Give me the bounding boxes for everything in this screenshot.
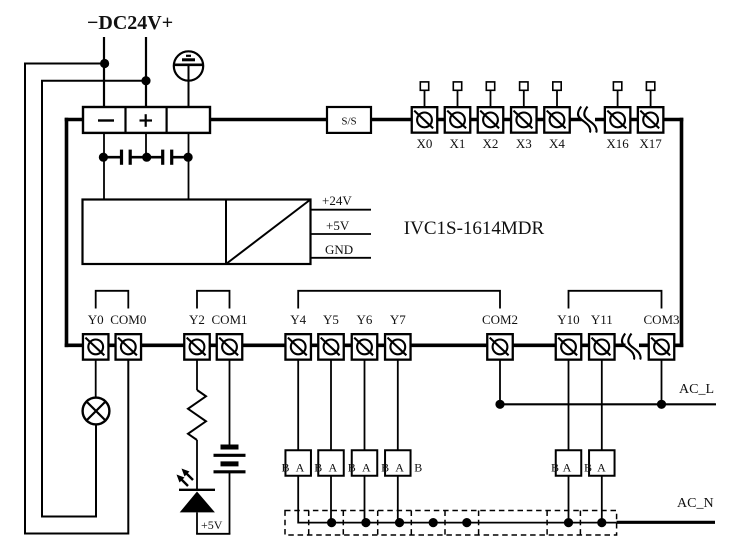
node ACN Y5 bbox=[327, 518, 336, 527]
terminal Y2 bbox=[184, 312, 210, 360]
terminal COM2 bbox=[482, 312, 518, 360]
battery GB1 bbox=[214, 447, 246, 472]
svg-text:A: A bbox=[362, 461, 371, 475]
protective earth PE bbox=[174, 51, 203, 107]
capacitor C1 bbox=[103, 150, 146, 165]
bracket Y2-COM1 bbox=[197, 291, 230, 309]
wire minus to PSU bbox=[103, 133, 105, 199]
wire LED-battery bottom bbox=[196, 533, 230, 535]
wire Y10 down bbox=[568, 360, 570, 451]
terminal COM1 bbox=[211, 312, 247, 360]
svg-text:Y11: Y11 bbox=[591, 312, 613, 327]
wire minus from DC24V bbox=[103, 37, 105, 107]
enclosure bus right bbox=[680, 118, 684, 347]
terminal Y5 bbox=[318, 312, 344, 360]
dashed bus outline bbox=[285, 511, 617, 536]
node ACN Y10 bbox=[564, 518, 573, 527]
wire GND bbox=[311, 257, 372, 259]
load K6 bbox=[348, 450, 377, 476]
wire Y6 down bbox=[364, 360, 366, 451]
svg-text:B: B bbox=[414, 461, 422, 475]
svg-text:B: B bbox=[584, 461, 592, 475]
load K11 bbox=[584, 450, 615, 476]
wire COM3 down bbox=[661, 360, 663, 405]
svg-text:A: A bbox=[597, 461, 606, 475]
terminal X16 bbox=[605, 82, 631, 151]
terminal Y10 bbox=[556, 312, 582, 360]
svg-text:X17: X17 bbox=[639, 136, 662, 151]
wire +24V bbox=[311, 209, 372, 211]
terminal Y7 bbox=[385, 312, 411, 360]
svg-text:−DC24V+: −DC24V+ bbox=[87, 12, 173, 34]
bracket Y4-COM2 bbox=[298, 291, 500, 309]
svg-text:GND: GND bbox=[325, 242, 353, 257]
wire resistor to LED bbox=[196, 440, 198, 490]
wire Y7 down bbox=[397, 360, 399, 451]
S/S box bbox=[327, 107, 371, 133]
break X bus bbox=[578, 107, 597, 133]
wire Y11 down bbox=[601, 360, 603, 451]
svg-text:Y6: Y6 bbox=[357, 312, 373, 327]
wire K11 to ACN bbox=[601, 476, 603, 523]
node ACN spare2 bbox=[462, 518, 471, 527]
wire LED to bottom bbox=[196, 512, 198, 533]
svg-text:X4: X4 bbox=[549, 136, 565, 151]
wire +5V bbox=[311, 233, 372, 235]
svg-text:A: A bbox=[296, 461, 305, 475]
capacitor C2 bbox=[147, 150, 188, 165]
lamp HL1 bbox=[83, 398, 110, 425]
svg-text:Y0: Y0 bbox=[88, 312, 104, 327]
wire K10 to ACN bbox=[568, 476, 570, 523]
wire Y2 to resistor bbox=[196, 360, 198, 391]
enclosure bus bottom bbox=[65, 343, 684, 347]
terminal block TB1 bbox=[83, 107, 210, 133]
wire K6 to ACN bbox=[364, 476, 366, 523]
svg-text:A: A bbox=[563, 461, 572, 475]
svg-text:IVC1S-1614MDR: IVC1S-1614MDR bbox=[404, 218, 545, 239]
node ACN Y7 bbox=[395, 518, 404, 527]
node ACN spare1 bbox=[429, 518, 438, 527]
svg-text:Y2: Y2 bbox=[189, 312, 205, 327]
terminal Y6 bbox=[352, 312, 378, 360]
svg-text:A: A bbox=[395, 461, 404, 475]
svg-text:Y5: Y5 bbox=[323, 312, 339, 327]
terminal X2 bbox=[478, 82, 504, 151]
terminal X1 bbox=[445, 82, 471, 151]
svg-text:COM0: COM0 bbox=[110, 312, 146, 327]
node COM3-ACL bbox=[657, 400, 666, 409]
load K5 bbox=[314, 450, 343, 476]
node ACN Y11 bbox=[597, 518, 606, 527]
wire earth to cap row bbox=[188, 133, 190, 199]
svg-text:X0: X0 bbox=[417, 136, 433, 151]
svg-text:S/S: S/S bbox=[341, 116, 356, 128]
terminal X17 bbox=[638, 82, 664, 151]
svg-text:Y10: Y10 bbox=[557, 312, 579, 327]
terminal X4 bbox=[544, 82, 570, 151]
wire Y0 to lamp bbox=[95, 360, 97, 399]
svg-text:X16: X16 bbox=[606, 136, 629, 151]
terminal Y11 bbox=[589, 312, 615, 360]
load K4 bbox=[281, 450, 310, 476]
svg-text:A: A bbox=[328, 461, 337, 475]
load K7 bbox=[381, 450, 410, 476]
svg-text:B: B bbox=[381, 461, 389, 475]
wire K4 to ACN bbox=[298, 476, 616, 523]
LED D1 bbox=[177, 469, 216, 513]
enclosure bus left bbox=[65, 118, 69, 347]
wire plus to cap row bbox=[145, 133, 147, 157]
wire COM2 down bbox=[499, 360, 501, 405]
terminal X3 bbox=[511, 82, 537, 151]
svg-text:B: B bbox=[314, 461, 322, 475]
wire K5 to ACN bbox=[330, 476, 332, 523]
wire AC_L bbox=[500, 403, 716, 405]
wire COM0 outer loop bbox=[25, 64, 128, 534]
wire COM1 to battery bbox=[229, 360, 231, 448]
terminal COM3 bbox=[643, 312, 679, 360]
wire Y5 down bbox=[330, 360, 332, 451]
power supply U2 bbox=[83, 200, 311, 265]
svg-text:COM1: COM1 bbox=[211, 312, 247, 327]
wire K7 to ACN bbox=[397, 476, 399, 523]
node COM2-ACL bbox=[495, 400, 504, 409]
wire Y0 inner loop bbox=[42, 81, 146, 517]
resistor R1 bbox=[188, 390, 206, 440]
node plus junction bbox=[141, 76, 150, 85]
svg-text:X1: X1 bbox=[450, 136, 466, 151]
svg-text:AC_L: AC_L bbox=[679, 382, 714, 397]
break Y bus bbox=[622, 334, 641, 360]
enclosure bus top bbox=[65, 118, 684, 122]
node cap mid bbox=[142, 153, 151, 162]
svg-text:COM2: COM2 bbox=[482, 312, 518, 327]
svg-text:Y4: Y4 bbox=[290, 312, 306, 327]
svg-text:+5V: +5V bbox=[326, 218, 350, 233]
node cap left bbox=[99, 153, 108, 162]
load K10 bbox=[551, 450, 581, 476]
terminal Y4 bbox=[285, 312, 311, 360]
svg-text:B: B bbox=[281, 461, 289, 475]
terminal X0 bbox=[412, 82, 438, 151]
wire battery to bottom bbox=[229, 472, 231, 534]
svg-text:+24V: +24V bbox=[322, 193, 352, 208]
node ACN Y6 bbox=[361, 518, 370, 527]
bracket Y10-COM3 bbox=[569, 291, 662, 309]
svg-text:X3: X3 bbox=[516, 136, 532, 151]
svg-text:+5V: +5V bbox=[201, 518, 223, 532]
terminal COM0 bbox=[110, 312, 146, 360]
svg-text:Y7: Y7 bbox=[390, 312, 406, 327]
node minus junction bbox=[100, 59, 109, 68]
svg-text:B: B bbox=[551, 461, 559, 475]
terminal Y0 bbox=[83, 312, 109, 360]
svg-text:X2: X2 bbox=[483, 136, 499, 151]
svg-text:B: B bbox=[348, 461, 356, 475]
wire plus from DC24V bbox=[145, 37, 147, 107]
bracket Y0-COM0 bbox=[96, 291, 129, 309]
svg-text:COM3: COM3 bbox=[643, 312, 679, 327]
node cap right bbox=[184, 153, 193, 162]
svg-text:AC_N: AC_N bbox=[677, 496, 714, 511]
wire Y4 down bbox=[297, 360, 299, 451]
